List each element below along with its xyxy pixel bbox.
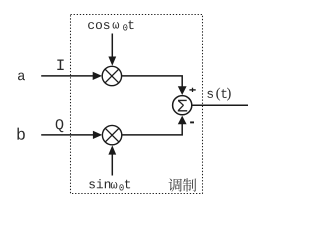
wire a input (41, 72, 102, 80)
wire output s(t) (192, 104, 248, 106)
dashed modulator box (71, 15, 203, 194)
wire b input (41, 131, 102, 139)
node label a (18, 73, 25, 81)
wire M1 to summer (122, 76, 187, 95)
label s(t) (207, 88, 230, 101)
multiplier M1 (I mixer) (102, 66, 121, 85)
minus sign at summer bottom input (190, 121, 194, 123)
summer U1 (173, 96, 192, 115)
node label b (17, 128, 24, 140)
wire sin carrier up arrow (108, 145, 116, 175)
label 调制 (modulation) (169, 178, 197, 192)
net label I (57, 60, 63, 71)
wire M2 to summer (122, 116, 187, 135)
plus sign at summer top input (189, 88, 195, 92)
multiplier M2 (Q mixer) (102, 125, 121, 144)
wire cos carrier down arrow (108, 34, 116, 66)
label cos w0t (88, 20, 134, 30)
label sin w0t (89, 179, 130, 191)
net label Q (56, 119, 64, 132)
